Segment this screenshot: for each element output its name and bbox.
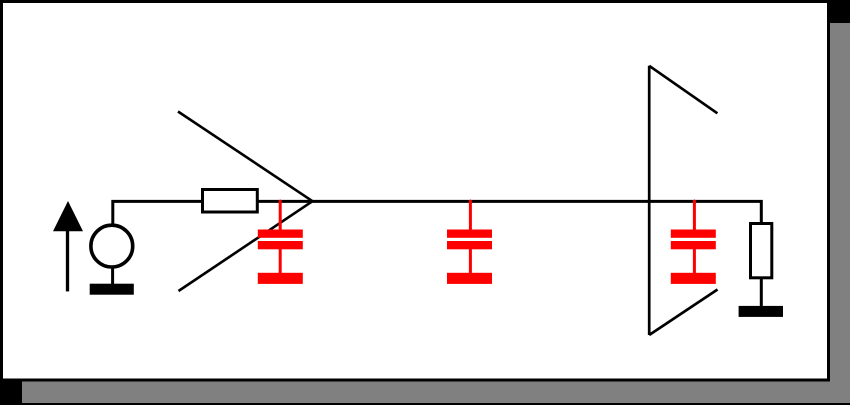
horn antenna (right, upper arm) bbox=[649, 66, 717, 114]
horn antenna (left, lower arm) bbox=[179, 201, 313, 291]
horn antenna (left, upper arm) bbox=[178, 112, 313, 202]
resistor R1 (series) bbox=[203, 190, 258, 213]
wire: source to load (main horizontal net) bbox=[113, 201, 762, 224]
resistor R2 (load) bbox=[751, 224, 772, 278]
capacitor C3 (shunt, red) bbox=[671, 199, 716, 284]
current source I1 bbox=[91, 225, 133, 267]
capacitor C2 (shunt, red) bbox=[447, 199, 492, 284]
ground (under source) bbox=[90, 266, 134, 295]
ground (under load) bbox=[739, 278, 783, 317]
horn antenna (right, vertical aperture) bbox=[648, 66, 651, 335]
arrow (source direction) bbox=[53, 201, 83, 291]
capacitor C1 (shunt, red) bbox=[258, 199, 303, 284]
horn antenna (right, lower arm) bbox=[649, 290, 717, 336]
